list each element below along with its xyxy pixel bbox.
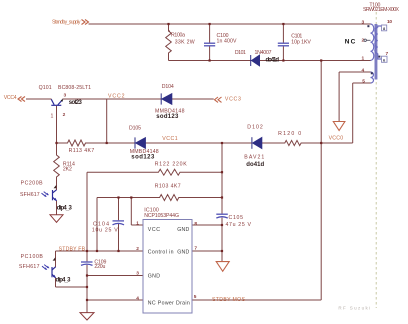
svg-text:SRW021EM-X00X: SRW021EM-X00X bbox=[363, 7, 400, 13]
svg-text:10: 10 bbox=[387, 19, 392, 25]
svg-text:GND: GND bbox=[177, 250, 189, 256]
svg-text:BAV21: BAV21 bbox=[244, 154, 264, 160]
svg-text:R103 4K7: R103 4K7 bbox=[155, 184, 181, 190]
svg-text:D102: D102 bbox=[247, 124, 263, 130]
svg-text:2: 2 bbox=[136, 246, 139, 252]
svg-text:47u 25 V: 47u 25 V bbox=[226, 222, 252, 228]
svg-text:2K2: 2K2 bbox=[63, 167, 72, 173]
svg-text:VCC0: VCC0 bbox=[329, 135, 344, 141]
svg-text:VCC1: VCC1 bbox=[162, 136, 178, 142]
svg-text:5: 5 bbox=[362, 79, 365, 85]
svg-text:D101: D101 bbox=[235, 50, 246, 56]
svg-text:2: 2 bbox=[362, 38, 365, 44]
svg-text:R113 4K7: R113 4K7 bbox=[69, 148, 95, 154]
svg-text:BC808-25LT1: BC808-25LT1 bbox=[58, 85, 91, 91]
svg-text:NC: NC bbox=[345, 39, 356, 46]
svg-text:R100a: R100a bbox=[171, 33, 185, 39]
svg-text:dip4_3: dip4_3 bbox=[56, 277, 72, 283]
svg-text:do41d: do41d bbox=[266, 58, 280, 64]
svg-text:1N4007: 1N4007 bbox=[255, 50, 272, 56]
svg-text:220u: 220u bbox=[94, 264, 105, 270]
svg-text:R120 0: R120 0 bbox=[278, 131, 301, 137]
svg-text:1: 1 bbox=[51, 114, 54, 120]
svg-text:D104: D104 bbox=[162, 84, 174, 90]
svg-text:8: 8 bbox=[194, 221, 197, 227]
svg-text:C105: C105 bbox=[229, 215, 244, 221]
svg-text:sod123: sod123 bbox=[131, 155, 155, 161]
svg-text:4: 4 bbox=[136, 296, 139, 302]
svg-text:7: 7 bbox=[194, 246, 197, 252]
svg-text:SFH617: SFH617 bbox=[20, 192, 40, 198]
svg-text:3: 3 bbox=[362, 20, 365, 26]
svg-text:Control in: Control in bbox=[148, 250, 174, 256]
svg-text:PC100B: PC100B bbox=[21, 254, 44, 260]
svg-text:VCC3: VCC3 bbox=[225, 97, 241, 103]
svg-text:4: 4 bbox=[362, 68, 365, 74]
svg-text:GND: GND bbox=[177, 227, 189, 233]
svg-text:1: 1 bbox=[362, 56, 365, 62]
svg-text:VCC4: VCC4 bbox=[4, 95, 17, 101]
svg-text:NC Power Drain: NC Power Drain bbox=[148, 301, 190, 307]
svg-text:R122 220K: R122 220K bbox=[155, 161, 188, 167]
svg-text:NCP1053P44G: NCP1053P44G bbox=[144, 213, 179, 219]
svg-text:sod123: sod123 bbox=[156, 114, 179, 120]
svg-text:10p 1KV: 10p 1KV bbox=[291, 40, 311, 46]
svg-text:dip4_3: dip4_3 bbox=[57, 206, 73, 212]
svg-text:VCC: VCC bbox=[148, 227, 160, 233]
svg-text:SFH617: SFH617 bbox=[19, 264, 40, 270]
svg-text:VCC2: VCC2 bbox=[108, 94, 125, 100]
svg-text:10u 25 V: 10u 25 V bbox=[92, 228, 118, 234]
svg-text:GND: GND bbox=[148, 273, 160, 279]
svg-text:3: 3 bbox=[64, 93, 67, 99]
svg-text:2: 2 bbox=[63, 112, 66, 118]
svg-text:STDBY MOS: STDBY MOS bbox=[212, 297, 246, 303]
svg-text:1n 400V: 1n 400V bbox=[217, 39, 238, 45]
svg-text:sot23: sot23 bbox=[69, 100, 83, 106]
svg-text:3: 3 bbox=[136, 271, 139, 277]
svg-text:Q101: Q101 bbox=[39, 85, 52, 91]
svg-text:7: 7 bbox=[386, 51, 389, 57]
svg-text:Standby_supply: Standby_supply bbox=[52, 20, 81, 26]
svg-text:1: 1 bbox=[136, 221, 139, 227]
svg-text:D105: D105 bbox=[129, 126, 141, 132]
svg-text:33K 2W: 33K 2W bbox=[175, 40, 195, 46]
svg-text:5: 5 bbox=[194, 294, 197, 300]
svg-text:RF Suzuki: RF Suzuki bbox=[338, 306, 370, 311]
svg-text:STDBY FB: STDBY FB bbox=[59, 247, 86, 253]
svg-text:PC200B: PC200B bbox=[21, 180, 44, 186]
svg-text:do41d: do41d bbox=[246, 162, 264, 168]
